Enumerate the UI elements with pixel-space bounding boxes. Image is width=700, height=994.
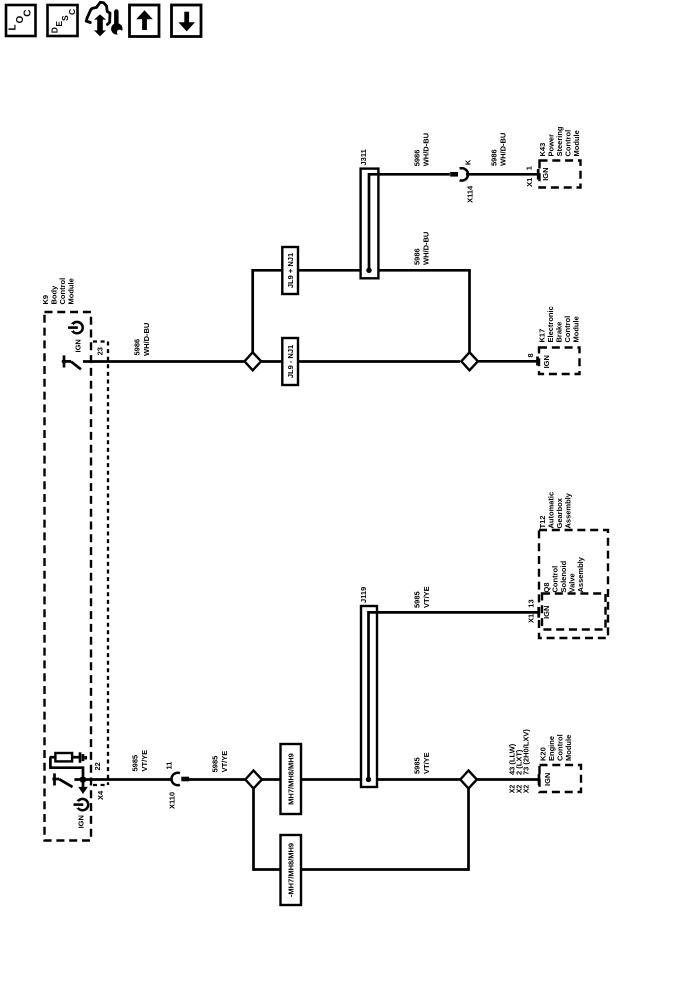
label 5986 WH/D-BU (after X114) [490, 133, 508, 166]
junction dot J119 [366, 777, 371, 782]
pin tick K17 [536, 357, 539, 366]
svg-text:5985: 5985 [211, 756, 220, 773]
svg-text:IGN: IGN [77, 815, 86, 828]
module K20 Engine Control Module box [540, 765, 582, 792]
button LOC [6, 5, 36, 36]
svg-text:IGN: IGN [73, 339, 82, 352]
svg-text:J119: J119 [359, 587, 368, 603]
module Q8 Control Solenoid Valve Assembly box [542, 594, 606, 630]
svg-text:VT/YE: VT/YE [220, 751, 229, 773]
svg-text:C: C [67, 9, 77, 15]
wire splice S1 to splice S2 [262, 360, 461, 363]
label K20 Engine Control Module [539, 734, 574, 761]
svg-text:X2: X2 [517, 785, 524, 794]
svg-text:K: K [463, 159, 472, 165]
svg-text:IGN: IGN [542, 355, 551, 368]
svg-text:5985: 5985 [413, 757, 422, 774]
wire fuse to junction [50, 757, 83, 779]
svg-text:X2: X2 [510, 785, 517, 794]
svg-text:WH/D-BU: WH/D-BU [142, 323, 151, 356]
svg-text:Module: Module [572, 316, 581, 342]
label X2 X2 X2 [510, 785, 531, 794]
svg-text:Module: Module [67, 278, 76, 304]
connector label box -MH7/MH8/MH9 [281, 835, 302, 905]
wire inside J311 up to X114 [369, 174, 450, 270]
switch (pin 22) [52, 773, 72, 787]
svg-text:73 (2H0/LXV): 73 (2H0/LXV) [522, 729, 531, 775]
label 5986 WH/D-BU (at BCM) [133, 323, 152, 356]
module K43 Power Steering Control Module box [540, 161, 581, 188]
button arrow up [130, 5, 160, 37]
wire inside J119 up to T12 [369, 612, 539, 779]
label Q8 Control Solenoid Valve Assembly [542, 556, 585, 592]
splice S2 diamond [461, 352, 478, 370]
svg-text:5986: 5986 [413, 248, 422, 265]
junction dot pin22 [80, 777, 85, 782]
label 5985 VT/YE (J119 top) [413, 586, 432, 608]
power symbol IGN (pin 22) [74, 799, 89, 810]
button DESC [48, 5, 78, 36]
svg-text:-MH7/MH8/MH9: -MH7/MH8/MH9 [287, 843, 296, 897]
connector label box JL9 + NJ1 [282, 247, 298, 294]
inline connector J311 [361, 169, 379, 279]
button arrow down [172, 5, 202, 37]
module K9 Body Control Module box [45, 312, 92, 841]
svg-text:C: C [23, 10, 34, 17]
svg-text:D: D [50, 27, 60, 33]
svg-text:X1: X1 [527, 614, 536, 623]
wire splice S3 to splice S4 [262, 778, 461, 781]
svg-text:5986: 5986 [490, 149, 499, 166]
svg-text:JL9 + NJ1: JL9 + NJ1 [286, 253, 295, 288]
svg-text:Module: Module [564, 735, 573, 761]
svg-text:IGN: IGN [541, 167, 550, 180]
connector label box MH7/MH8/MH9 [281, 744, 302, 814]
svg-text:MH7/MH8/MH9: MH7/MH8/MH9 [287, 753, 296, 805]
svg-text:VT/YE: VT/YE [140, 750, 149, 772]
svg-text:VT/YE: VT/YE [422, 586, 431, 608]
splice S1 diamond [245, 352, 262, 370]
svg-text:L: L [8, 24, 19, 30]
svg-text:Assembly: Assembly [576, 556, 585, 592]
power symbol IGN (pin 23) [68, 322, 83, 333]
svg-text:22: 22 [93, 762, 102, 770]
svg-text:11: 11 [165, 762, 174, 770]
label 5985 VT/YE (after X110) [211, 751, 230, 773]
svg-text:WH/D-BU: WH/D-BU [422, 133, 431, 166]
svg-text:IGN: IGN [543, 773, 552, 786]
svg-text:X2: X2 [524, 785, 531, 794]
svg-text:5986: 5986 [133, 339, 142, 356]
wire pin23 to splice S1 [83, 360, 245, 363]
wire splice S4 to K20 [477, 778, 538, 781]
svg-text:X4: X4 [96, 790, 105, 800]
label 5985 VT/YE (at BCM) [131, 750, 150, 772]
arrow into power symbol [78, 780, 88, 795]
svg-text:J311: J311 [359, 149, 368, 165]
connector label box JL9 - NJ1 [282, 338, 298, 385]
wire pin22 to X110 [74, 778, 172, 781]
splice S4 diamond [460, 771, 477, 789]
icon vehicle-scroll with wrench [86, 2, 122, 36]
pin tick Q8 [537, 607, 540, 618]
wire X110 to splice S3 [189, 778, 245, 781]
svg-text:8: 8 [526, 353, 535, 357]
svg-text:WH/D-BU: WH/D-BU [422, 232, 431, 265]
switch (pin 23) [62, 355, 81, 369]
splice S3 diamond [245, 771, 262, 789]
label K43 Power Steering Control Module [538, 126, 581, 156]
svg-text:X114: X114 [466, 185, 475, 203]
module K17 Electronic Brake Control Module box [539, 348, 580, 375]
wire splice S2 to K17 [478, 360, 537, 363]
svg-text:X110: X110 [168, 792, 177, 809]
wire X114 to K43 [466, 173, 537, 176]
inline connector J119 [361, 606, 377, 787]
ground symbol [80, 752, 86, 763]
label 5986 WH/D-BU (before X114) [413, 133, 431, 166]
label 5986 WH/D-BU (right of J311) [413, 232, 431, 265]
wire splice S3 down/over to splice S4 [254, 789, 469, 870]
svg-text:Module: Module [572, 130, 581, 156]
svg-text:13: 13 [527, 599, 536, 607]
svg-text:VT/YE: VT/YE [422, 752, 431, 774]
svg-text:WH/D-BU: WH/D-BU [499, 133, 508, 166]
svg-text:Assembly: Assembly [564, 492, 573, 528]
pin tick K20 [538, 774, 541, 785]
module T12 Automatic Gearbox Assembly box [539, 530, 608, 638]
svg-text:1: 1 [525, 166, 534, 170]
label K17 Electronic Brake Control Module [538, 306, 581, 342]
svg-text:5985: 5985 [131, 755, 140, 772]
svg-text:5986: 5986 [413, 150, 422, 167]
label K9 Body Control Module [41, 278, 76, 305]
inline connector X110 [172, 773, 190, 785]
svg-text:5985: 5985 [413, 591, 422, 608]
pin tick K43 [537, 169, 540, 180]
svg-text:JL9 - NJ1: JL9 - NJ1 [286, 345, 295, 378]
junction dot J311 [366, 268, 371, 273]
svg-text:IGN: IGN [542, 606, 551, 619]
fuse (pin 22 branch) [50, 753, 79, 761]
label T12 Automatic Gearbox Assembly [538, 492, 573, 529]
svg-text:X1: X1 [525, 178, 534, 187]
wire splice S1 up/over to splice S2 [253, 270, 470, 352]
label 5985 VT/YE (before S4) [413, 752, 432, 774]
connector X4 dotted box [93, 342, 108, 786]
inline connector X114 [450, 168, 468, 180]
svg-text:23: 23 [95, 347, 104, 355]
